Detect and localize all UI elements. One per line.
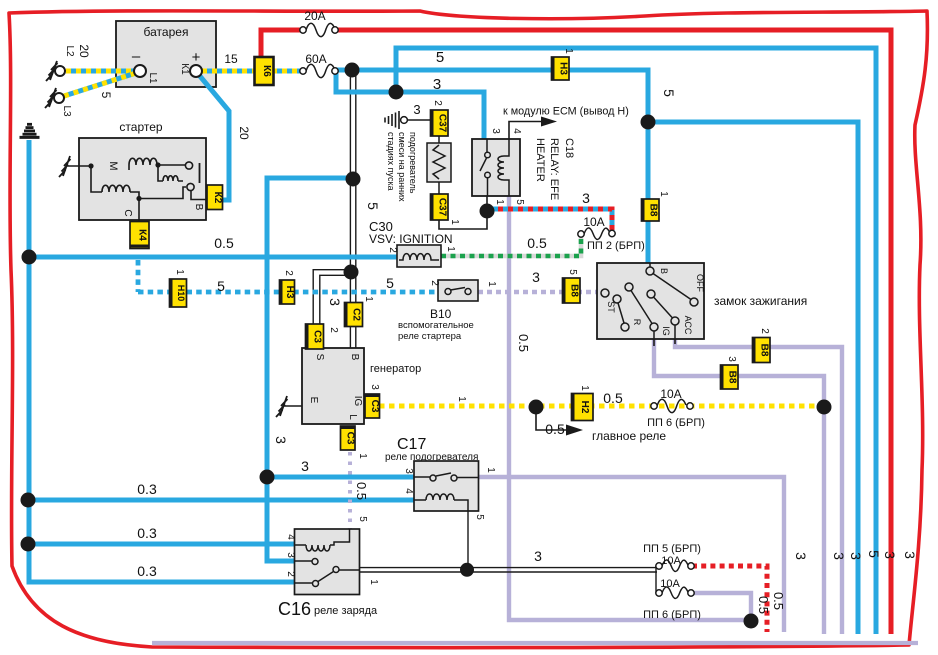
svg-text:генератор: генератор — [370, 363, 421, 375]
connector H10 — [170, 279, 187, 307]
svg-text:3: 3 — [490, 128, 501, 134]
wire lavender dotted 0.5: generator L connector C3 down to C16 pin 5 — [348, 452, 352, 529]
connector C37 lower — [431, 194, 449, 220]
armature coil — [129, 158, 157, 165]
svg-text:3: 3 — [534, 548, 542, 564]
wire black stub ignition IG — [653, 339, 655, 346]
svg-text:1: 1 — [563, 48, 574, 54]
svg-text:4: 4 — [403, 488, 414, 494]
svg-text:2: 2 — [387, 247, 398, 253]
wire blue 0.3 first: to C17 pin 4 — [28, 498, 414, 503]
wire black fuse split link — [655, 566, 657, 593]
svg-text:В8: В8 — [759, 344, 770, 357]
C18 internals — [480, 139, 509, 196]
wire black C18 pin4 to ECM arrow — [509, 122, 543, 140]
starter internals — [88, 158, 207, 221]
svg-text:С: С — [122, 209, 133, 216]
svg-text:ПП 6 (БРП): ПП 6 (БРП) — [643, 609, 701, 621]
wire yellow/cyan battery negative: ground L2 to battery L1 — [66, 69, 135, 74]
svg-text:В10: В10 — [430, 307, 452, 321]
wire black 0.5 branch to main relay arrow — [536, 407, 566, 430]
node B junction — [155, 162, 160, 167]
svg-text:5: 5 — [386, 275, 394, 291]
wire red 20A feed: K6 up, across top, down right side — [261, 30, 891, 634]
svg-text:1: 1 — [445, 246, 456, 252]
starter box — [79, 138, 206, 220]
svg-text:С3: С3 — [345, 432, 356, 445]
junction dot lavender bottom — [744, 614, 759, 629]
B10 contacts — [445, 288, 471, 295]
solenoid contact lower — [187, 183, 194, 190]
wire coil to node C — [130, 192, 139, 198]
fuse 60A — [300, 52, 338, 78]
solenoid contact upper — [185, 162, 192, 169]
svg-text:В8: В8 — [727, 371, 738, 384]
ignition lock box — [597, 263, 704, 339]
connector K6 — [255, 57, 274, 85]
connector B8 pin2 on ACC wire — [753, 338, 771, 363]
svg-text:Е: Е — [308, 397, 319, 404]
battery box — [116, 21, 216, 87]
svg-text:С3: С3 — [369, 400, 380, 413]
svg-text:0.5: 0.5 — [756, 596, 771, 614]
connector C2 generator B — [345, 303, 363, 327]
wire blue 3 top link and right column — [396, 48, 876, 634]
svg-text:2: 2 — [328, 327, 339, 333]
white wire branch to generator S connector C3 (gauge 3) — [313, 270, 351, 324]
svg-text:К6: К6 — [261, 65, 272, 77]
ground terminal circle L3 — [54, 93, 64, 103]
svg-text:20А: 20А — [304, 9, 325, 23]
fuse PP6 — [656, 587, 694, 599]
junction dot 60A output — [345, 63, 360, 78]
node C junction — [136, 196, 141, 201]
junction dot blue 5 corner — [641, 115, 656, 130]
svg-text:10А: 10А — [660, 387, 681, 401]
wire black C18 pin1 to junction and to heater C37 — [439, 196, 487, 229]
svg-text:3: 3 — [532, 269, 540, 285]
svg-text:реле заряда: реле заряда — [314, 605, 378, 617]
solenoid contact bar — [199, 163, 201, 183]
svg-text:15: 15 — [224, 52, 238, 66]
svg-text:К4: К4 — [137, 229, 148, 241]
svg-text:3: 3 — [726, 356, 737, 362]
svg-text:20: 20 — [237, 126, 251, 140]
wire lavender ignition IG across and down through yellow junction (gauge 3) — [654, 339, 824, 634]
svg-text:L: L — [347, 414, 358, 420]
relay B10 box — [438, 280, 478, 301]
white wire (double line) from 60A junction down to generator B — [350, 72, 355, 303]
svg-text:OFF: OFF — [695, 274, 705, 292]
field coil — [102, 185, 130, 192]
svg-text:1: 1 — [174, 269, 185, 275]
svg-text:L2: L2 — [64, 45, 75, 57]
connector H3 top — [552, 57, 570, 80]
svg-text:1: 1 — [456, 396, 467, 402]
svg-text:3: 3 — [413, 102, 420, 117]
relay C18 box — [472, 139, 520, 196]
ground symbol L2 (chassis) — [46, 61, 58, 81]
svg-text:5: 5 — [514, 199, 525, 205]
svg-text:В8: В8 — [648, 204, 659, 217]
svg-text:вспомогательное: вспомогательное — [398, 320, 474, 331]
svg-text:М: М — [107, 161, 119, 170]
svg-text:S: S — [314, 354, 325, 361]
svg-text:2: 2 — [283, 270, 294, 276]
wire node C to contact lower — [139, 187, 186, 199]
svg-text:ПП 2 (БРП): ПП 2 (БРП) — [587, 240, 645, 252]
connector C3 generator L — [341, 426, 356, 450]
wire lavender C17 pin1 across and down right side (gauge 3) — [479, 477, 784, 632]
svg-text:5: 5 — [567, 269, 578, 275]
svg-text:главное реле: главное реле — [592, 429, 666, 443]
relay C17 box — [414, 461, 479, 511]
wire to field coil — [91, 166, 102, 192]
svg-text:С16: С16 — [278, 599, 311, 619]
svg-text:В8: В8 — [569, 284, 580, 297]
svg-text:IG: IG — [352, 396, 363, 407]
fuse 20A — [300, 9, 338, 37]
arrow to ECM module — [541, 117, 557, 127]
ignition contacts — [601, 263, 698, 339]
heater resistor box — [427, 143, 451, 182]
svg-text:стадиях пуска: стадиях пуска — [386, 132, 396, 191]
wire black stub ignition ACC — [674, 339, 676, 344]
wire yellow dashed 1: generator IG connector C3 through H2 and fuse to junction — [379, 404, 824, 409]
svg-text:20: 20 — [77, 44, 91, 58]
svg-text:–: – — [132, 48, 141, 65]
wire node C to K4 — [138, 199, 140, 222]
battery terminal K1 — [190, 65, 202, 77]
wire red/blue striped 3: C18 pin1 junction to fuse PP2 — [488, 209, 612, 231]
junction dot C18 pin1 — [480, 204, 495, 219]
svg-text:К2: К2 — [212, 192, 223, 204]
wire black C17 pin5 down to white wire junction — [467, 511, 469, 567]
wire lavender dashed: relay B10 to ignition ST — [478, 290, 599, 295]
generator box — [302, 348, 364, 424]
svg-text:ПП 6 (БРП): ПП 6 (БРП) — [647, 417, 705, 429]
wire blue ignition B feed — [646, 122, 651, 265]
svg-text:2: 2 — [432, 100, 443, 106]
svg-text:1: 1 — [363, 296, 374, 302]
svg-text:3: 3 — [582, 190, 590, 206]
relay C16 box — [295, 529, 360, 595]
svg-text:батарея: батарея — [144, 25, 189, 39]
connector H3 on cyan wire — [280, 280, 295, 304]
junction dot ground bus 0.3 first — [21, 493, 36, 508]
svg-text:2: 2 — [285, 571, 296, 577]
white wire C16 pin1 to fuses PP5/PP6 (gauge 3) — [360, 568, 657, 572]
svg-text:HEATER: HEATER — [534, 138, 546, 182]
fuse PP2 10A — [578, 228, 615, 240]
svg-text:3: 3 — [285, 552, 296, 558]
connector B8 on ST wire — [563, 278, 581, 303]
wire blue 5: junction to H3 across, down, across to right column — [352, 70, 858, 634]
wire ground circle to C37 — [407, 119, 431, 121]
wire yellow/cyan battery K1 to K6 to 60A fuse (gauge 15) — [202, 69, 303, 74]
ground symbol left bus (earth) — [20, 124, 40, 137]
ground symbol L3 (chassis) — [45, 88, 57, 108]
svg-text:к модулю ЕСМ (вывод Н): к модулю ЕСМ (вывод Н) — [503, 106, 629, 118]
junction dot blue to C17 — [260, 470, 275, 485]
svg-text:1: 1 — [485, 467, 496, 473]
lavender bottom bus wire — [152, 641, 918, 645]
svg-text:С2: С2 — [351, 308, 362, 321]
wire yellow/cyan ground L3 to battery L1 (gauge 5) — [64, 73, 136, 96]
svg-text:5: 5 — [436, 49, 444, 66]
connector C3 generator S — [306, 324, 324, 349]
wire red dashed 0.5: fuse PP5 output down right — [692, 566, 767, 632]
svg-text:1: 1 — [658, 191, 669, 197]
svg-text:0.5: 0.5 — [516, 334, 531, 352]
wire blue 3 to C17 pin 3 — [267, 475, 414, 480]
solenoid coil — [158, 165, 183, 181]
svg-text:4: 4 — [285, 534, 296, 540]
svg-text:5: 5 — [661, 89, 677, 97]
wire lavender ignition ACC across and down (gauge 3) — [675, 339, 842, 634]
junction dot ground bus 0.5 — [22, 250, 37, 265]
C18 coil — [498, 139, 509, 196]
svg-text:3: 3 — [301, 458, 309, 474]
svg-text:0.5: 0.5 — [545, 421, 565, 437]
svg-text:0.5: 0.5 — [603, 390, 623, 406]
svg-text:5: 5 — [866, 550, 882, 558]
svg-text:1: 1 — [357, 453, 368, 459]
svg-text:5: 5 — [365, 202, 381, 210]
svg-text:3: 3 — [793, 552, 809, 560]
wire blue 20: battery K1 to starter K2 — [199, 75, 229, 200]
connector B8 pin3 on IG wire — [721, 365, 739, 389]
junction dot C17 pin5 on white wire — [460, 563, 474, 577]
junction dot ground bus 0.3 second — [21, 537, 36, 552]
svg-text:5: 5 — [357, 516, 368, 522]
svg-text:3: 3 — [433, 76, 441, 93]
svg-text:5: 5 — [99, 92, 113, 99]
svg-text:2: 2 — [759, 328, 770, 334]
connector B8 on ignition B wire — [642, 199, 660, 221]
svg-text:подогреватель: подогреватель — [408, 132, 418, 194]
ground terminal circle L2 — [55, 66, 65, 76]
svg-text:С37: С37 — [437, 198, 448, 217]
svg-text:реле стартера: реле стартера — [398, 331, 462, 342]
svg-text:3: 3 — [831, 552, 847, 560]
svg-text:1: 1 — [368, 579, 379, 585]
connector C3 generator IG — [365, 394, 380, 418]
svg-text:С17: С17 — [397, 436, 426, 453]
svg-text:VSV: IGNITION: VSV: IGNITION — [369, 232, 453, 246]
svg-text:Н3: Н3 — [558, 62, 569, 75]
wire blue 0.5: ground bus to VSV C30 pin 2 — [29, 255, 397, 260]
junction dot yellow to lavender IG — [817, 400, 832, 415]
svg-text:смеси на ранних: смеси на ранних — [397, 132, 407, 202]
wire green/grey dashed 0.5: VSV pin1 to fuse PP2 — [441, 237, 581, 256]
wire lavender fuse PP6 output to junction (0.5) — [692, 593, 751, 621]
junction dot white wire split — [344, 265, 359, 280]
VSV coil — [399, 254, 439, 260]
svg-text:IG: IG — [661, 326, 671, 336]
svg-text:ST: ST — [606, 301, 616, 313]
svg-text:В: В — [193, 204, 204, 211]
svg-text:10А: 10А — [660, 578, 680, 590]
connector C37 upper — [431, 110, 449, 136]
connector K2 — [207, 185, 223, 210]
connector H2 — [572, 394, 594, 421]
wire blue 0.3 second: to C16 pin 4 — [28, 542, 295, 547]
junction dot blue 3 link — [389, 85, 404, 100]
junction dot white wire / starter branch — [346, 172, 361, 187]
resistor zigzag — [433, 145, 445, 179]
fuse PP5 — [656, 560, 694, 572]
svg-text:0.3: 0.3 — [137, 481, 157, 497]
svg-text:3: 3 — [403, 468, 414, 474]
svg-text:3: 3 — [369, 384, 380, 390]
svg-text:2: 2 — [429, 280, 440, 286]
svg-text:С37: С37 — [437, 114, 448, 133]
svg-text:10А: 10А — [583, 215, 604, 229]
white wire C2 connector to generator B — [350, 326, 355, 348]
heater ground symbol (body) — [385, 111, 399, 129]
svg-text:1: 1 — [494, 199, 505, 205]
svg-text:0.3: 0.3 — [137, 525, 157, 541]
heater ground circle — [401, 117, 408, 124]
svg-text:0.5: 0.5 — [527, 235, 547, 251]
svg-text:замок зажигания: замок зажигания — [714, 294, 807, 308]
valve C30 VSV box — [397, 245, 441, 267]
svg-text:3: 3 — [327, 298, 343, 306]
svg-text:L1: L1 — [147, 72, 158, 84]
svg-text:3: 3 — [902, 551, 918, 559]
svg-text:4: 4 — [511, 128, 522, 134]
battery terminal L1 — [134, 65, 146, 77]
svg-text:+: + — [192, 49, 201, 66]
svg-text:К1: К1 — [179, 63, 190, 75]
svg-text:L3: L3 — [61, 105, 72, 117]
C17 internals — [414, 473, 478, 511]
svg-text:Н3: Н3 — [284, 286, 295, 299]
wire blue 3: elbow from 60A junction down to C18 pin 3 — [336, 70, 484, 139]
svg-text:RELAY: EFE: RELAY: EFE — [548, 138, 560, 200]
svg-text:С18: С18 — [563, 138, 575, 158]
svg-text:В: В — [659, 268, 669, 274]
svg-text:0.5: 0.5 — [214, 235, 234, 251]
node M — [88, 163, 93, 168]
arrow to main relay — [566, 425, 583, 436]
wire blue stub 60A fuse to junction — [335, 68, 352, 73]
svg-text:1: 1 — [579, 385, 590, 391]
ground symbol generator E — [276, 396, 288, 417]
svg-text:В: В — [349, 354, 360, 361]
wire C37 to resistor — [438, 136, 440, 194]
connector K4 — [130, 222, 149, 249]
svg-text:С3: С3 — [312, 330, 323, 343]
svg-text:3: 3 — [882, 551, 898, 559]
svg-text:АСС: АСС — [683, 316, 693, 335]
svg-text:Н10: Н10 — [176, 285, 186, 302]
wire E ground to box — [284, 405, 302, 407]
C16 internals — [295, 529, 361, 587]
svg-text:R: R — [632, 319, 642, 326]
svg-text:ПП 5 (БРП): ПП 5 (БРП) — [643, 543, 701, 555]
svg-text:60А: 60А — [305, 52, 326, 66]
wire node B to solenoid contact — [157, 164, 185, 166]
svg-text:стартер: стартер — [119, 120, 162, 134]
svg-text:3: 3 — [273, 436, 289, 444]
svg-text:1: 1 — [486, 281, 497, 287]
junction dot yellow 0.5 branch — [529, 400, 544, 415]
svg-text:0.5: 0.5 — [771, 592, 786, 610]
svg-text:0.5: 0.5 — [354, 482, 369, 500]
wire lavender C18 pin5 down and across to junction — [509, 196, 751, 621]
fuse PP6 10A on yellow wire — [651, 399, 693, 412]
svg-text:0.3: 0.3 — [137, 563, 157, 579]
wire blue: starter branch down left side to C16 pin 3 — [267, 178, 353, 561]
svg-text:Н2: Н2 — [579, 401, 590, 414]
svg-text:3: 3 — [848, 552, 864, 560]
wire starter ground into box — [67, 165, 91, 167]
wire contact to K2 — [191, 191, 207, 200]
svg-text:1: 1 — [449, 219, 460, 225]
svg-text:5: 5 — [217, 278, 225, 294]
wire cyan dashed 5: branch from 0.5 line through H10 and H3 to relay B10 — [138, 260, 438, 292]
ground symbol starter — [59, 156, 71, 177]
wire blue ground bus down left side — [29, 140, 295, 582]
svg-text:5: 5 — [474, 514, 485, 520]
